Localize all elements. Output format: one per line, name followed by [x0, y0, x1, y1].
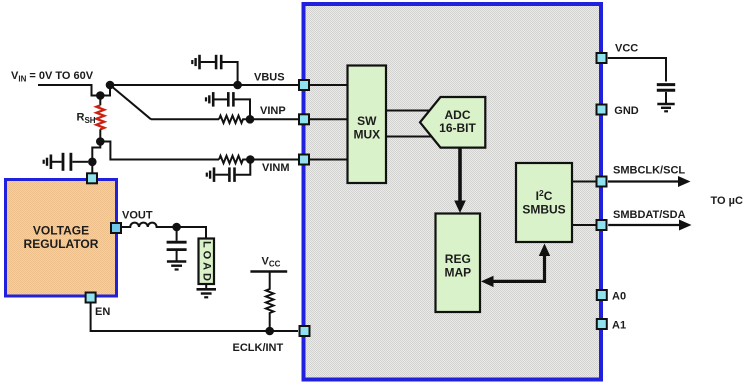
svg-text:SW: SW: [357, 114, 377, 128]
svg-text:RSH: RSH: [77, 112, 96, 125]
wire C to regulator top pin: [92, 142, 100, 174]
wire VINP left segment: [151, 118, 219, 120]
svg-text:VCC: VCC: [262, 255, 281, 268]
ground (C4): [44, 155, 51, 170]
svg-text:I2C: I2C: [536, 188, 553, 203]
pin VINP: [299, 114, 309, 124]
svg-text:ECLK/INT: ECLK/INT: [233, 342, 284, 354]
wire VINM stub inside IC: [310, 159, 348, 161]
pin A0: [597, 290, 607, 300]
wire MUX to ADC upper: [386, 110, 436, 112]
node A (RSH top junction): [96, 91, 105, 100]
I2C SMBUS block: [516, 163, 572, 242]
wire C to VINM: [100, 142, 219, 160]
wire SMBUS to SMBCLK pin: [572, 181, 596, 183]
pin A1: [597, 319, 607, 329]
pin SMBCLK/SCL: [597, 177, 607, 187]
pin VOUT: [111, 223, 121, 233]
svg-text:VOUT: VOUT: [122, 210, 153, 222]
wire VINP stub inside IC: [310, 118, 348, 120]
resistor RSH (red shunt): [99, 96, 101, 106]
svg-text:VINM: VINM: [262, 162, 290, 174]
op-amp ADC 16-BIT (pentagon): [420, 97, 485, 148]
ground (C5): [167, 262, 186, 270]
svg-text:A1: A1: [612, 320, 626, 332]
capacitor C1 (VBUS bypass): [201, 55, 238, 85]
svg-text:A0: A0: [612, 291, 626, 303]
ground (C1): [192, 55, 199, 70]
capacitor C3 (VINM bypass): [215, 160, 250, 182]
svg-text:VBUS: VBUS: [254, 72, 285, 84]
svg-text:VINP: VINP: [260, 105, 286, 117]
SW MUX block: [348, 66, 387, 184]
svg-text:REGULATOR: REGULATOR: [24, 237, 99, 251]
pin GND: [597, 105, 607, 115]
wire VIN input: [38, 85, 110, 96]
pin VCC: [597, 53, 607, 63]
wire diagonal B to VINP: [110, 85, 151, 119]
node H (pull-up junction): [265, 327, 274, 336]
ground (C6): [657, 104, 674, 111]
svg-text:16-BIT: 16-BIT: [439, 121, 476, 135]
wire ADC to REG MAP (arrow): [458, 148, 462, 202]
voltage regulator block: [6, 180, 117, 297]
wire MUX to ADC lower: [386, 136, 436, 138]
node B (VBUS junction): [106, 81, 115, 90]
node F (C4 junction): [88, 158, 97, 167]
wire VCC to C6: [608, 58, 666, 82]
resistor R3 (VINM filter): [219, 156, 298, 163]
svg-text:VOLTAGE: VOLTAGE: [33, 224, 89, 238]
pin EN: [86, 293, 96, 303]
svg-text:SMBDAT/SDA: SMBDAT/SDA: [613, 209, 686, 221]
ground (LOAD): [197, 285, 217, 298]
pin VINM: [299, 155, 309, 165]
node G (VOUT junction): [172, 223, 181, 232]
node VBUS-C1 junction: [233, 81, 242, 90]
node VINM junction: [246, 155, 255, 164]
resistor R4 (ECLK pull-up): [250, 270, 287, 272]
capacitor C5 (output): [167, 227, 187, 261]
load block: [199, 239, 215, 285]
svg-text:MAP: MAP: [444, 266, 471, 280]
wire SMBDAT/SDA arrow: [608, 224, 680, 226]
resistor R2 (VINP filter): [219, 116, 298, 123]
svg-text:REG: REG: [445, 252, 471, 266]
wire SMBUS to SMBDAT pin: [572, 224, 596, 226]
svg-text:GND: GND: [614, 105, 639, 117]
capacitor C2 (VINP bypass): [214, 92, 250, 119]
IC body U1: [304, 4, 602, 380]
node C (RSH bottom junction): [96, 137, 105, 146]
svg-text:SMBUS: SMBUS: [522, 203, 565, 217]
REG MAP block: [436, 214, 481, 313]
inductor L1: [122, 223, 206, 238]
ground (C3): [207, 167, 214, 182]
wire VBUS: [110, 84, 298, 86]
wire SMBCLK/SCL arrow: [608, 180, 679, 182]
svg-text:VCC: VCC: [615, 43, 638, 55]
svg-text:EN: EN: [95, 306, 110, 318]
ground (C2): [206, 92, 213, 107]
wire EN to ECLK/INT: [91, 303, 298, 331]
wire VBUS stub inside IC: [310, 84, 348, 86]
capacitor C6 (VCC bypass): [657, 85, 675, 104]
svg-text:TO µC: TO µC: [711, 195, 743, 207]
wire REG MAP to SMBUS (double arrow): [491, 255, 545, 282]
node VINP junction: [246, 115, 255, 124]
svg-text:MUX: MUX: [353, 128, 380, 142]
pin regulator VIN (top): [87, 173, 97, 183]
capacitor C4 (input bypass at regulator): [52, 153, 88, 171]
pin ECLK/INT: [300, 326, 310, 336]
svg-text:VIN = 0V TO 60V: VIN = 0V TO 60V: [11, 70, 94, 83]
svg-text:ADC: ADC: [445, 108, 471, 122]
pin SMBDAT/SDA: [597, 220, 607, 230]
pin VBUS: [299, 80, 309, 90]
svg-text:SMBCLK/SCL: SMBCLK/SCL: [613, 164, 685, 176]
